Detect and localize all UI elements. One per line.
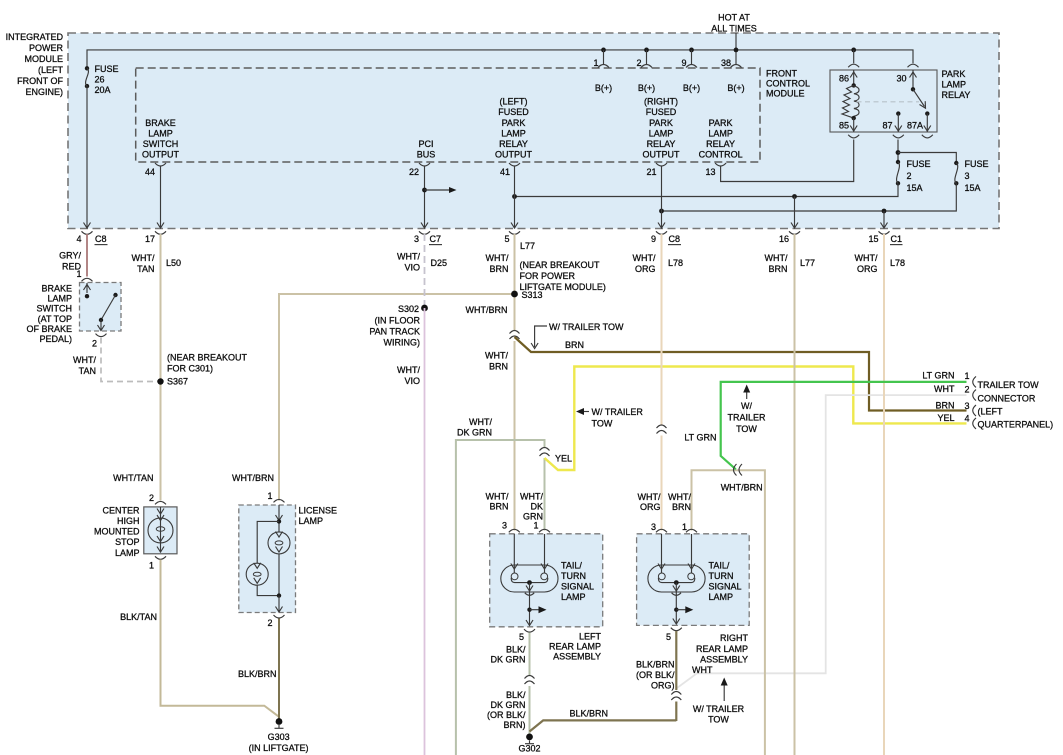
svg-text:87: 87: [882, 121, 892, 131]
arrowhead: trailer tow BRN leader: [531, 343, 538, 349]
svg-text:1: 1: [593, 58, 598, 68]
svg-text:S367: S367: [167, 377, 188, 387]
wire: pin 16 drop: [794, 197, 796, 228]
svg-text:W/ TRAILER: W/ TRAILER: [592, 407, 644, 417]
wire: fuse 2 output to pin 41 bus: [515, 183, 899, 196]
pin bracket relay 85 bottom: [848, 135, 859, 138]
svg-text:1: 1: [76, 269, 81, 279]
ground G303: [249, 718, 309, 753]
bracket: left lamp bulb exit: [525, 593, 534, 596]
svg-text:22: 22: [409, 167, 419, 177]
svg-text:C7: C7: [430, 234, 442, 244]
svg-text:(IN FLOORPAN TRACKWIRING): (IN FLOORPAN TRACKWIRING): [369, 316, 420, 348]
node: right lamp common dot: [674, 580, 679, 585]
fuse F26: [85, 64, 119, 95]
svg-text:FOR POWER: FOR POWER: [520, 271, 576, 281]
svg-text:WHT/BRN: WHT/BRN: [668, 492, 691, 512]
wire: brake switch pin1 internal: [86, 283, 88, 293]
svg-text:WHT/TAN: WHT/TAN: [113, 473, 153, 483]
underline C8 right: [668, 244, 681, 246]
node: brake switch blade dot: [99, 318, 103, 322]
arrow: relay blade tip: [920, 101, 926, 108]
svg-text:LAMP: LAMP: [709, 592, 734, 602]
arrow: left lamp exit: [526, 586, 533, 592]
underline C1: [890, 244, 903, 246]
pin bracket FCM pin 1: [598, 65, 609, 68]
wire: fuse 3 feed branch: [898, 153, 956, 164]
svg-text:TAIL/: TAIL/: [561, 561, 582, 571]
wire: WHT/VIO dashed to S302: [424, 234, 426, 305]
connector C8 pin 9 bracket: [656, 231, 667, 234]
connector bracket trailer pin 4: [973, 418, 976, 429]
svg-text:C8: C8: [95, 234, 107, 244]
svg-text:5: 5: [666, 632, 671, 642]
svg-text:WHT/TAN: WHT/TAN: [132, 253, 155, 274]
wire: relay 86 feed drop: [853, 50, 855, 63]
svg-text:L77: L77: [520, 241, 535, 251]
svg-text:15: 15: [868, 234, 878, 244]
svg-text:TRAILER TOW: TRAILER TOW: [978, 380, 1040, 390]
wire: right lamp exit internal: [675, 583, 677, 624]
wire: hot feed bus: [87, 50, 913, 68]
svg-text:INTEGRATEDPOWERMODULE(LEFTFRON: INTEGRATEDPOWERMODULE(LEFTFRONT OFENGINE…: [6, 32, 64, 97]
svg-text:87A: 87A: [907, 121, 923, 131]
svg-text:WHT/BRN: WHT/BRN: [486, 253, 509, 274]
wire: pin 15 drop: [883, 211, 885, 228]
svg-text:W/ TRAILERTOW: W/ TRAILERTOW: [693, 704, 745, 725]
arrow: brake switch pin2 down: [98, 325, 105, 331]
svg-text:2: 2: [964, 385, 969, 395]
svg-text:3: 3: [502, 521, 507, 531]
svg-text:17: 17: [145, 234, 155, 244]
filament: license bulb1 loop: [275, 541, 283, 545]
pin bracket right lamp pin 3: [656, 529, 667, 532]
svg-text:5: 5: [519, 632, 524, 642]
wire: left lamp bulb common: [511, 578, 548, 583]
arrowhead: right lamp branch right: [685, 606, 693, 613]
pin bracket FCM pin 9: [686, 65, 697, 68]
wire: right lamp pin3 internal: [661, 534, 663, 573]
wire: WHT/ORG L78 pin9 upper: [661, 234, 663, 425]
svg-text:LAMP: LAMP: [299, 516, 324, 526]
wire: right lamp branch stub: [676, 609, 689, 611]
arrowhead: trailer tow LT GRN leader: [743, 385, 750, 393]
wire: fuse 26 output to pin 4: [86, 86, 88, 227]
wire: BLK/BRN right lamp to G302: [530, 720, 677, 731]
node: splice S367: [157, 378, 163, 384]
pin bracket left lamp pin 5: [524, 629, 535, 632]
svg-text:D25: D25: [431, 258, 448, 268]
svg-text:YEL: YEL: [937, 413, 954, 423]
node: splice S302: [421, 305, 428, 312]
wire: WHT/DK GRN to left lamp pin 1: [544, 458, 546, 531]
arrowhead: trailer tow yellow leader: [576, 408, 584, 415]
wire: WHT/VIO solid below S302: [424, 308, 426, 755]
arrow: relay 30 up: [910, 72, 917, 78]
svg-text:1: 1: [682, 522, 687, 532]
svg-text:86: 86: [839, 74, 849, 84]
svg-text:L77: L77: [800, 258, 815, 268]
svg-text:13: 13: [705, 167, 715, 177]
wire: BLK/BRN license to G303: [278, 619, 280, 720]
ground G302: [518, 734, 540, 754]
node: left lamp exit dot: [527, 608, 531, 612]
pin bracket CHMSL pin 2: [155, 501, 166, 504]
wire: relay pin 86 internal: [853, 70, 855, 85]
wire: relay pin 85 internal: [853, 118, 855, 131]
svg-text:44: 44: [145, 167, 155, 177]
svg-text:1: 1: [267, 491, 272, 501]
pin bracket relay 87 bottom: [893, 135, 904, 138]
node: junction dot pin9 feed: [689, 48, 694, 53]
svg-text:38: 38: [721, 58, 731, 68]
pin bracket brake switch pin 2: [96, 334, 107, 337]
svg-text:BLK/BRN: BLK/BRN: [238, 669, 277, 679]
svg-text:(LEFT: (LEFT: [978, 407, 1004, 417]
svg-text:3: 3: [651, 522, 656, 532]
wire: YEL to trailer tow connector: [545, 367, 967, 471]
arrow: pin 21 down: [658, 223, 665, 229]
svg-text:TAIL/: TAIL/: [709, 561, 730, 571]
svg-text:20A: 20A: [95, 85, 111, 95]
svg-text:LT GRN: LT GRN: [684, 433, 716, 443]
svg-text:RIGHTREAR LAMPASSEMBLY: RIGHTREAR LAMPASSEMBLY: [696, 633, 749, 665]
node: right lamp exit dot: [674, 608, 678, 612]
filament: left lamp loop 2: [541, 573, 548, 580]
bulb: left lamp stadium housing: [501, 565, 558, 592]
node: left lamp common dot: [527, 580, 532, 585]
wire: WHT/ORG L78 pin9 lower: [661, 436, 663, 531]
svg-text:B(+): B(+): [727, 83, 744, 93]
arrow: left lamp pin3 into bulb: [511, 564, 518, 570]
arrow: pin 44 down: [157, 223, 164, 229]
svg-text:G302: G302: [518, 744, 540, 754]
wire: pin 22 drop: [424, 167, 426, 228]
svg-text:BLK/BRN: BLK/BRN: [570, 709, 609, 719]
svg-text:BLK/TAN: BLK/TAN: [120, 612, 157, 622]
arrow: license bulb1 in: [276, 532, 283, 538]
svg-text:PARK: PARK: [942, 69, 966, 79]
svg-text:HOT ATALL TIMES: HOT ATALL TIMES: [711, 13, 757, 34]
wire: pin 21 drop: [661, 167, 663, 228]
wire: B+ pin 1 drop: [603, 50, 605, 64]
svg-text:WHT/ORG: WHT/ORG: [638, 492, 661, 512]
filament: left lamp loop 1: [511, 573, 518, 580]
module U1: integrated power module box: [68, 33, 999, 229]
svg-text:BRAKELAMPSWITCH(AT TOPOF BRAKE: BRAKELAMPSWITCH(AT TOPOF BRAKEPEDAL): [26, 284, 72, 345]
leader arrow: trailer tow yellow: [580, 411, 589, 413]
leader arrow: trailer tow WHT: [723, 682, 725, 701]
arrow: right lamp exit: [673, 586, 680, 592]
wire: BRN to trailer tow connector: [515, 337, 967, 411]
connector pin 16 bracket: [789, 231, 800, 234]
arrow: license bulb1 out: [276, 547, 283, 553]
node: junction dot pin 15 tap: [882, 209, 887, 214]
wire: WHT/BRN L77 lower segment to left lamp: [514, 341, 516, 531]
arrow: CHMSL out: [157, 547, 164, 553]
wire: relay 87 to fuses: [897, 140, 899, 163]
arrow: license into bulb1: [276, 515, 283, 521]
break: splice on right pin5: [671, 692, 681, 701]
wire: license bulb2 to exit: [257, 585, 279, 595]
wire: license internal entry: [278, 505, 280, 532]
break: splice on BLK/DK GRN: [525, 676, 535, 685]
coil: relay coil loops: [854, 86, 859, 116]
relay K1: park lamp relay box: [830, 70, 937, 132]
arrow: left lamp pin1 into bulb: [541, 564, 548, 570]
node: relay coil top dot: [852, 83, 856, 87]
arrow: CHMSL bulb exit: [157, 536, 164, 542]
svg-text:21: 21: [646, 167, 656, 177]
svg-text:W/TRAILERTOW: W/TRAILERTOW: [727, 401, 766, 434]
svg-text:2: 2: [92, 339, 97, 349]
svg-text:WHT/BRN: WHT/BRN: [466, 305, 508, 315]
arrow: relay 85 down: [850, 126, 857, 132]
node: junction dot pin 21 bus: [659, 209, 664, 214]
bracket: right lamp bulb exit: [672, 593, 681, 596]
wire: WHT/BRN L77 upper segment: [514, 234, 516, 330]
pin bracket FCM pin 21: [656, 163, 667, 166]
svg-text:L78: L78: [668, 258, 683, 268]
pin bracket FCM pin 22: [419, 163, 430, 166]
pin bracket left lamp pin 1: [539, 529, 550, 532]
svg-text:MODULE: MODULE: [766, 89, 805, 99]
svg-text:L78: L78: [890, 258, 905, 268]
svg-text:(NEAR BREAKOUT: (NEAR BREAKOUT: [167, 353, 248, 363]
connector pin 5 bracket: [509, 231, 520, 234]
bulb: right lamp stadium housing: [648, 565, 705, 592]
svg-text:B(+): B(+): [638, 83, 655, 93]
wire: BLK/DK GRN upper: [529, 633, 531, 676]
node: junction dot pin2 feed: [644, 48, 649, 53]
pin bracket CHMSL pin 1: [155, 556, 166, 559]
svg-text:1: 1: [149, 561, 154, 571]
wire: B+ pin 2 drop: [646, 50, 648, 64]
wire: WHT/DK GRN branch: [456, 440, 545, 755]
svg-text:9: 9: [681, 58, 686, 68]
pin bracket relay 86: [848, 64, 859, 67]
pin bracket brake switch pin 1: [82, 278, 93, 281]
wire: right lamp pin1 internal: [691, 534, 693, 573]
svg-text:FUSE: FUSE: [907, 159, 931, 169]
wire: pci branch stub: [425, 189, 453, 191]
arrow: license bulb2 in: [254, 563, 261, 569]
coil: relay coil winding: [842, 85, 854, 118]
wire: LT GRN to trailer tow connector: [721, 382, 967, 469]
svg-text:S302: S302: [398, 304, 419, 314]
svg-text:BLK/DK GRN: BLK/DK GRN: [490, 645, 526, 665]
svg-text:SIGNAL: SIGNAL: [709, 582, 742, 592]
svg-text:26: 26: [95, 75, 105, 85]
connector C1 pin 15 bracket: [879, 231, 890, 234]
svg-text:85: 85: [839, 121, 849, 131]
lamp: right tail/turn signal lamp box: [637, 534, 750, 626]
wire: WHT to trailer tow connector: [676, 395, 966, 688]
svg-text:WHT/ORG: WHT/ORG: [633, 253, 656, 274]
node: junction dot pin38 feed: [734, 48, 739, 53]
wire: pin 41 drop: [514, 167, 516, 228]
wire: BLK/BRN right lamp pin5 lower: [675, 702, 677, 722]
wire: WHT/TAN L50 down: [160, 234, 162, 501]
arrow: relay 87 down: [895, 126, 902, 132]
wire: relay pin 87A internal: [926, 114, 928, 132]
svg-text:B(+): B(+): [683, 83, 700, 93]
svg-text:30: 30: [896, 74, 906, 84]
svg-text:WHT/DK GRN: WHT/DK GRN: [457, 417, 493, 438]
svg-text:BRN: BRN: [935, 401, 954, 411]
arrow: right lamp pin3 into bulb: [658, 564, 665, 570]
node: relay coil bottom dot: [852, 116, 856, 120]
pin bracket left lamp pin 3: [509, 529, 520, 532]
svg-text:4: 4: [76, 234, 81, 244]
connector bracket trailer pin 3: [973, 405, 976, 416]
svg-text:WHT/BRN: WHT/BRN: [232, 473, 274, 483]
arrow: CHMSL into bulb: [157, 515, 164, 521]
break: splice option on L77: [510, 331, 520, 340]
svg-text:FOR C301): FOR C301): [167, 364, 213, 374]
svg-text:SIGNAL: SIGNAL: [561, 582, 594, 592]
switch S1: brake lamp switch box: [80, 283, 122, 332]
svg-text:(NEAR BREAKOUT: (NEAR BREAKOUT: [520, 260, 601, 270]
wire: relay pin 87 internal: [897, 114, 899, 132]
pin bracket FCM pin 2: [641, 65, 652, 68]
node: junction dot pin1 feed: [601, 48, 606, 53]
svg-text:TOW: TOW: [592, 419, 613, 429]
node: junction dot pin 16 tap: [792, 194, 797, 199]
wire: CHMSL internal: [160, 507, 162, 553]
filament: right lamp loop 2: [688, 573, 695, 580]
svg-text:WHT/ORG: WHT/ORG: [855, 253, 878, 274]
arrow: brake switch pin1 up: [84, 285, 91, 291]
filament: CHMSL loop: [156, 527, 165, 531]
arrow: pci branch right: [449, 187, 457, 193]
wire: WHT/ORG L78 pin15: [883, 234, 885, 755]
bulb: CHMSL bulb circle: [148, 518, 173, 543]
connector C8 pin 4 bracket: [82, 231, 93, 234]
wire: BLK/BRN right lamp pin5 upper: [675, 631, 677, 690]
wire: license bulb1 to exit: [278, 554, 280, 596]
wire: right lamp bulb common: [658, 578, 694, 583]
switch: relay blade: [913, 89, 925, 106]
svg-text:C8: C8: [669, 234, 681, 244]
underline C8: [95, 244, 108, 246]
lamp: center high mounted stop lamp box: [144, 507, 177, 554]
svg-text:WHT/TAN: WHT/TAN: [73, 355, 96, 376]
switch blade: brake switch: [101, 295, 116, 320]
wire: left lamp pin1 internal: [544, 534, 546, 573]
wire: left lamp exit internal: [529, 583, 531, 626]
svg-text:QUARTERPANEL): QUARTERPANEL): [978, 420, 1054, 430]
svg-text:G303: G303: [268, 732, 290, 742]
svg-text:W/ TRAILER TOW: W/ TRAILER TOW: [549, 322, 624, 332]
svg-text:1: 1: [533, 521, 538, 531]
svg-text:41: 41: [500, 167, 510, 177]
break: splice green to WHT/BRN: [734, 464, 743, 476]
wire: left lamp branch stub: [530, 609, 543, 611]
break: splice green to yellow: [540, 448, 550, 457]
arrow: right lamp exit bottom: [673, 619, 680, 625]
svg-text:9: 9: [651, 234, 656, 244]
svg-text:LICENSE: LICENSE: [299, 506, 338, 516]
svg-text:16: 16: [779, 234, 789, 244]
svg-text:15A: 15A: [965, 183, 981, 193]
leader arrow: trailer tow BRN: [535, 326, 547, 347]
connector pin 17 bracket: [155, 231, 166, 234]
node: license exit dot: [277, 593, 281, 597]
pin bracket license pin 1: [274, 499, 285, 502]
module U2: front control module box: [136, 68, 760, 162]
svg-text:2: 2: [267, 618, 272, 628]
wire: license branch to bulb2: [257, 521, 279, 563]
svg-text:RELAY: RELAY: [942, 90, 971, 100]
svg-text:B(+): B(+): [595, 83, 612, 93]
wire: WHT/BRN right lamp branch: [692, 470, 765, 755]
svg-text:C1: C1: [891, 234, 903, 244]
svg-text:LAMP: LAMP: [561, 592, 586, 602]
pin bracket right lamp pin 5: [671, 628, 682, 631]
svg-text:BLK/BRN(OR BLK/ORG): BLK/BRN(OR BLK/ORG): [636, 660, 675, 691]
underline C7: [429, 244, 442, 246]
svg-text:2: 2: [907, 171, 912, 181]
arrow: pin 15 down: [881, 223, 888, 229]
arrow: pin 41 down: [511, 223, 518, 229]
svg-text:PCIBUS: PCIBUS: [417, 139, 436, 160]
connector bracket trailer pin 1: [973, 376, 976, 387]
arrow: pin 22 down: [421, 223, 428, 229]
fuse F2: [896, 159, 931, 193]
svg-text:WHT/BRN: WHT/BRN: [721, 483, 763, 493]
wire: WHT/TAN dashed to S367: [101, 338, 158, 382]
dashed link coil to blade: [857, 101, 920, 103]
node: junction dot pin 41 bus: [512, 194, 517, 199]
arrow: fuse26 wire down: [84, 223, 91, 229]
arrow: relay 87A down: [924, 126, 931, 132]
svg-text:WHT/BRN: WHT/BRN: [485, 351, 508, 372]
wire: B+ pin 9 drop: [691, 50, 693, 64]
node: relay 87 dot: [896, 111, 900, 115]
wire: license internal exit: [278, 596, 280, 612]
pin bracket FCM pin 44: [155, 163, 166, 166]
node: pci branch dot: [422, 188, 427, 193]
arrow: left lamp exit bottom: [526, 620, 533, 626]
svg-text:(IN LIFTGATE): (IN LIFTGATE): [249, 743, 309, 753]
pin bracket FCM pin 41: [509, 163, 520, 166]
wire: BLK/TAN to G303: [161, 560, 280, 717]
node: relay switch pivot dot: [911, 87, 915, 91]
pin bracket right lamp pin 1: [686, 529, 697, 532]
lamp: license lamp box: [239, 505, 296, 613]
node: junction dot relay86 feed: [851, 48, 856, 53]
arrow: license bulb2 out: [254, 578, 261, 584]
connector C7 pin 3 bracket: [419, 231, 430, 234]
arrow: license out down: [276, 607, 283, 613]
svg-text:YEL: YEL: [555, 454, 572, 464]
wire: WHT/BRN L77 pin16: [794, 234, 796, 755]
svg-text:15A: 15A: [907, 183, 923, 193]
svg-text:5: 5: [504, 234, 509, 244]
svg-text:4: 4: [964, 414, 969, 424]
svg-text:BRAKELAMPSWITCHOUTPUT: BRAKELAMPSWITCHOUTPUT: [142, 118, 180, 160]
node: license entry dot: [277, 519, 281, 523]
pin bracket relay 87A bottom: [922, 135, 933, 138]
pin bracket license pin 2: [274, 615, 285, 618]
arrow: pin 16 down: [791, 223, 798, 229]
svg-text:2: 2: [636, 58, 641, 68]
svg-text:WHT/DKGRN: WHT/DKGRN: [520, 492, 543, 522]
svg-text:TURN: TURN: [709, 571, 734, 581]
node: relay 87A dot: [925, 111, 929, 115]
svg-text:3: 3: [965, 171, 970, 181]
